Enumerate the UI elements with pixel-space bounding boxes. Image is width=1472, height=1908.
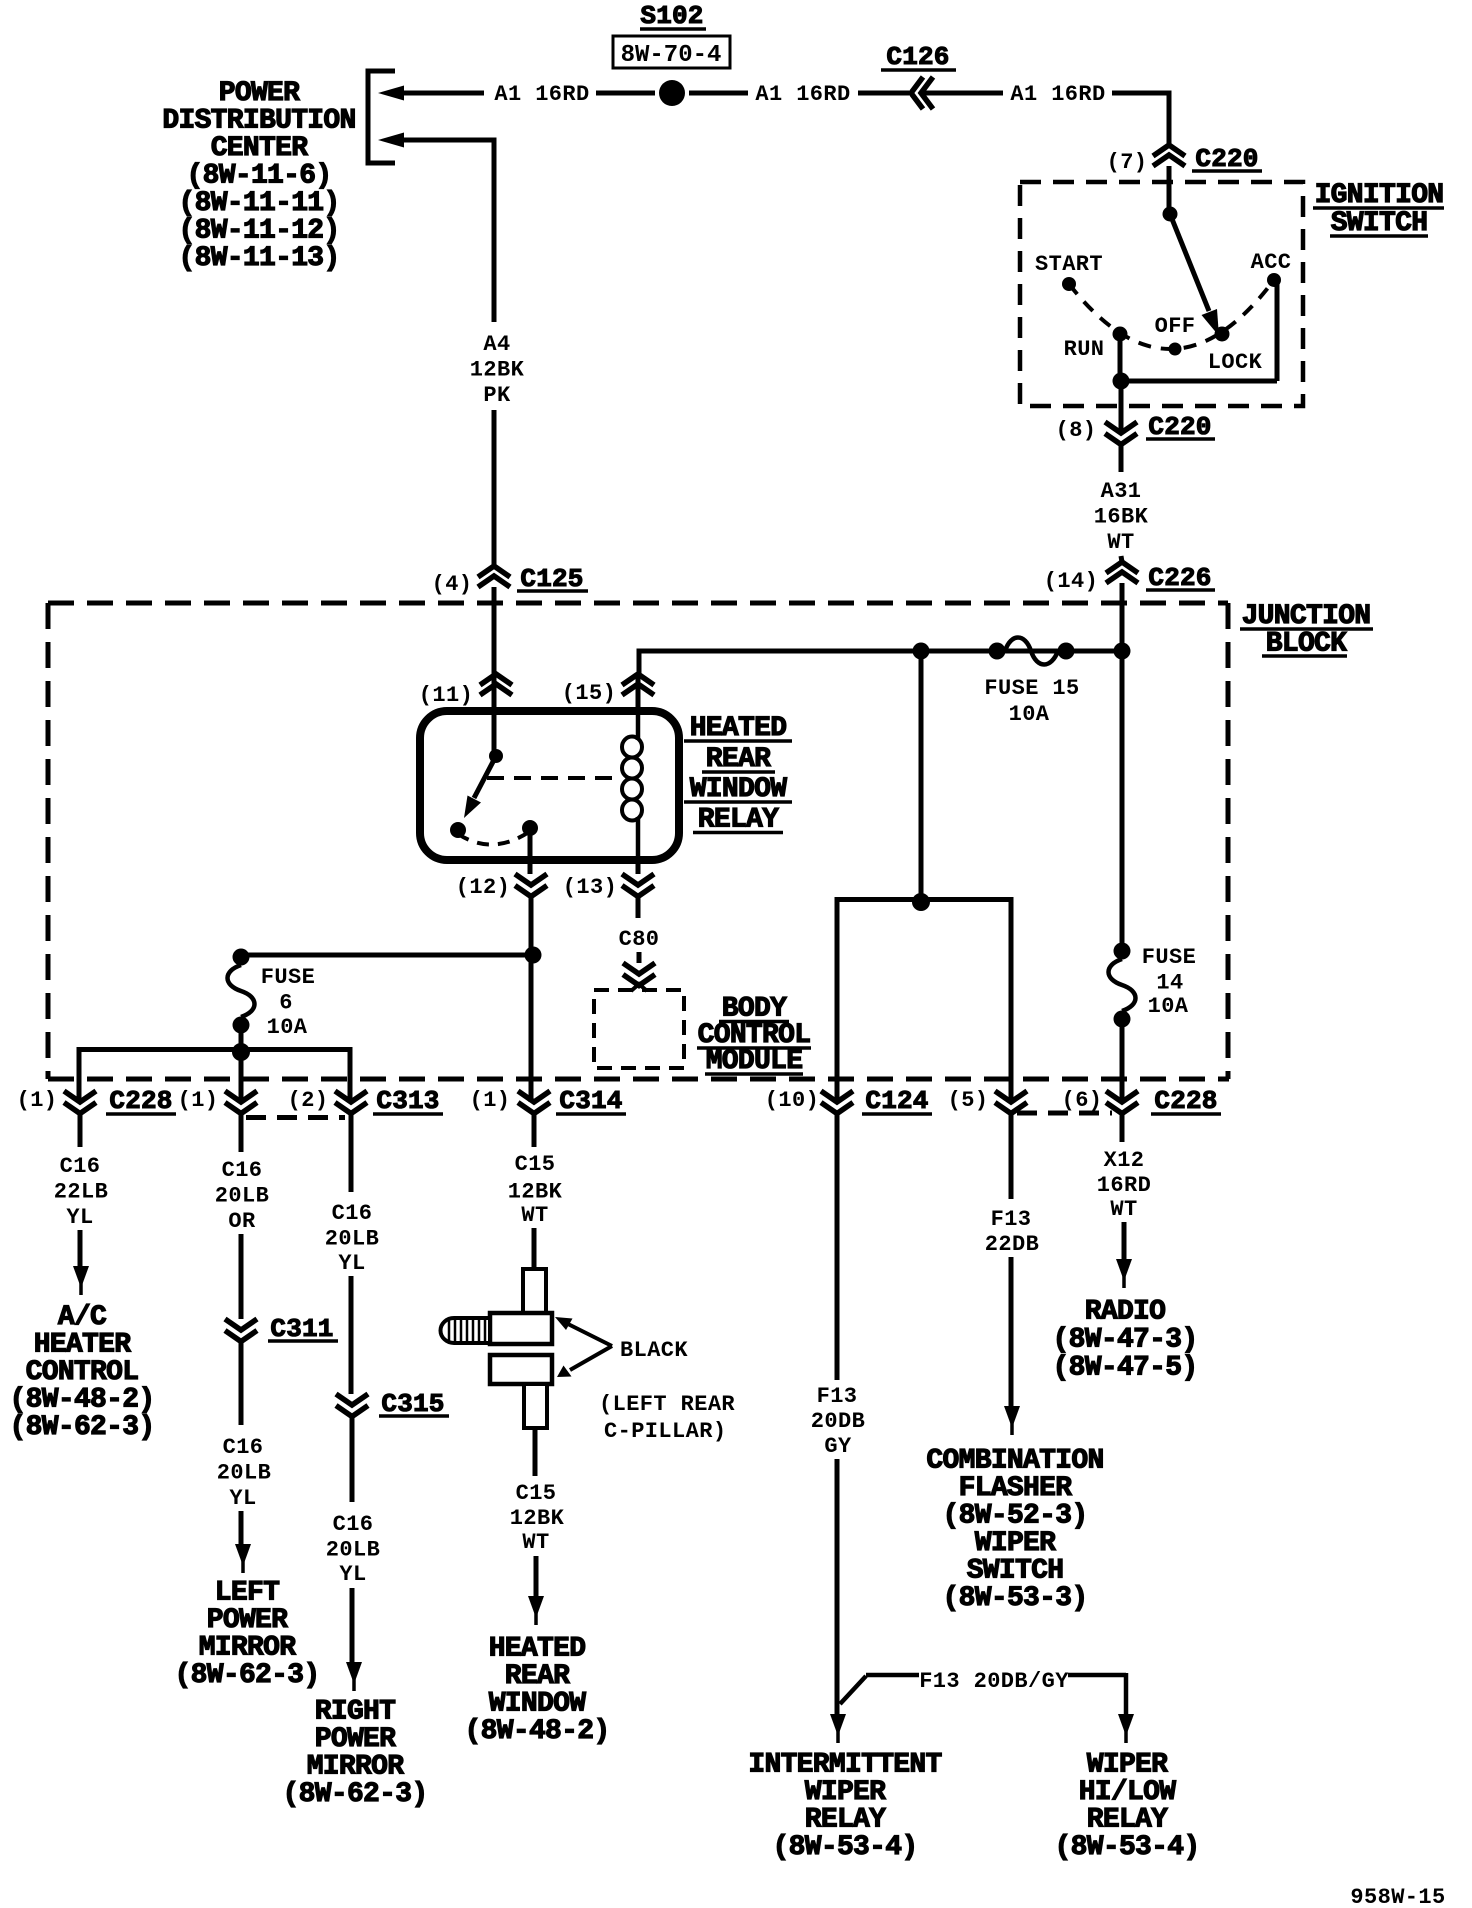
wire C15 12BK WT upper [532,1113,537,1147]
svg-text:(8W-62-3): (8W-62-3) [283,1779,428,1810]
svg-text:CONTROL: CONTROL [26,1357,139,1388]
svg-text:BLACK: BLACK [620,1338,688,1363]
reference box 8W-70-4 [613,36,730,68]
connector C220 pin 8 [1105,422,1137,433]
svg-text:(8W-11-6): (8W-11-6) [187,161,332,192]
wire C226 down through junction block [1120,583,1125,951]
wire C16 20LB OR [239,1113,244,1152]
connector chevrons x241 [225,1091,257,1102]
svg-text:C228: C228 [109,1086,172,1116]
svg-text:C-PILLAR): C-PILLAR) [604,1419,726,1444]
svg-text:MIRROR: MIRROR [307,1752,405,1783]
svg-text:(8W-11-13): (8W-11-13) [178,243,339,274]
svg-text:(1): (1) [470,1088,511,1113]
svg-text:S102: S102 [640,1,703,31]
wire C16 20LB YL to left mirror [239,1342,244,1426]
svg-text:C16: C16 [332,1201,373,1226]
svg-text:(10): (10) [765,1088,819,1113]
svg-text:(12): (12) [456,875,510,900]
svg-text:WIPER: WIPER [805,1777,886,1808]
wire A4 lower [492,410,497,566]
wire A1 16RD: C126 to ignition switch [922,91,1003,96]
connector C226 [1106,562,1138,573]
svg-text:C16: C16 [222,1158,263,1183]
svg-text:(1): (1) [17,1088,58,1113]
svg-text:958W-15: 958W-15 [1350,1885,1445,1908]
svg-text:WIPER: WIPER [1087,1750,1168,1781]
svg-text:(8W-62-3): (8W-62-3) [175,1660,320,1691]
relay common feed [492,711,497,756]
arrow to A/C heater control [73,1266,89,1288]
branch diagonal [840,1676,866,1704]
svg-text:POWER: POWER [219,78,300,109]
svg-text:A/C: A/C [58,1302,107,1333]
svg-text:(7): (7) [1107,150,1148,175]
fuse 6 feed [241,953,533,958]
svg-text:16BK: 16BK [1094,505,1149,530]
svg-text:PK: PK [483,383,511,408]
relay armature [474,756,496,798]
wire A4: PDC to C125 [400,138,497,143]
splice S102 [659,80,685,106]
svg-text:RIGHT: RIGHT [315,1697,396,1728]
svg-text:WT: WT [1107,530,1134,555]
wire F13 20DB GY [835,1113,840,1380]
svg-text:POWER: POWER [315,1724,396,1755]
svg-text:C16: C16 [60,1154,101,1179]
svg-text:DISTRIBUTION: DISTRIBUTION [162,106,355,137]
connector pin 15 chevrons [622,674,654,685]
svg-text:POWER: POWER [207,1605,288,1636]
svg-text:C16: C16 [333,1512,374,1537]
arrow to heated rear window [528,1596,544,1618]
junction block boundary [48,601,1228,606]
wire to C220 pin 8 [1119,381,1124,433]
svg-text:(8): (8) [1056,418,1097,443]
svg-text:20DB: 20DB [811,1409,865,1434]
wiper feed bus [837,897,1011,902]
wire relay pin 13 [636,860,641,874]
svg-text:SWITCH: SWITCH [967,1556,1064,1587]
svg-text:10A: 10A [1009,702,1050,727]
PDC feed arrow 1 [378,86,404,101]
svg-text:6: 6 [279,991,293,1016]
arrow to radio [1116,1259,1132,1281]
svg-text:WT: WT [521,1203,548,1228]
svg-text:(8W-48-2): (8W-48-2) [10,1385,155,1416]
svg-text:YL: YL [229,1486,256,1511]
svg-text:22LB: 22LB [54,1180,108,1205]
svg-text:INTERMITTENT: INTERMITTENT [748,1750,941,1781]
svg-text:HEATER: HEATER [34,1330,132,1361]
ignition switch rotor arm [1170,214,1209,311]
svg-text:(14): (14) [1044,569,1098,594]
wire bus to fuse 15 [637,649,642,676]
svg-text:HI/LOW: HI/LOW [1079,1777,1177,1808]
wire relay pin 12 [528,828,533,874]
ignition switch rotor pivot [1163,207,1178,222]
arrow to left power mirror [235,1544,251,1566]
junction block notch right [1017,1111,1112,1116]
fuse 14 [1114,943,1131,960]
svg-text:(11): (11) [419,683,473,708]
fuse 6 [228,965,255,1017]
svg-text:16RD: 16RD [1097,1173,1151,1198]
connector pin 12 chevrons [515,874,547,885]
svg-text:YL: YL [338,1251,365,1276]
svg-text:A4: A4 [483,332,510,357]
svg-text:FUSE 15: FUSE 15 [984,676,1079,701]
svg-text:(1): (1) [178,1088,219,1113]
svg-text:GY: GY [824,1434,852,1459]
svg-text:LEFT: LEFT [215,1578,279,1609]
connector C315 [336,1394,368,1405]
svg-text:MIRROR: MIRROR [199,1633,297,1664]
svg-text:FUSE: FUSE [1142,945,1196,970]
svg-text:F13 20DB/GY: F13 20DB/GY [919,1669,1069,1694]
wire ACC leg [1121,379,1277,384]
junction in switch [1113,373,1130,390]
arrow to wiper hi/low relay [1118,1714,1134,1736]
svg-text:(8W-11-11): (8W-11-11) [178,188,339,219]
svg-text:(LEFT REAR: (LEFT REAR [599,1392,735,1417]
svg-text:YL: YL [339,1562,366,1587]
connector pin 11 chevrons [480,674,512,685]
svg-text:C15: C15 [515,1152,556,1177]
svg-text:A1 16RD: A1 16RD [494,82,589,107]
svg-text:(8W-53-3): (8W-53-3) [943,1583,1088,1614]
svg-text:ACC: ACC [1251,250,1292,275]
svg-text:RADIO: RADIO [1085,1297,1166,1328]
svg-text:(13): (13) [563,875,617,900]
svg-text:YL: YL [66,1205,93,1230]
svg-text:WIPER: WIPER [975,1528,1056,1559]
svg-text:(5): (5) [948,1088,989,1113]
wire C16 20LB YL upper (C313 leg) [349,1113,354,1192]
svg-text:(8W-47-3): (8W-47-3) [1053,1325,1198,1356]
svg-text:20LB: 20LB [326,1538,380,1563]
grommet upper stem [523,1269,546,1313]
svg-text:RUN: RUN [1064,337,1105,362]
svg-text:8W-70-4: 8W-70-4 [621,42,722,69]
svg-text:12BK: 12BK [470,358,525,383]
mirror/heater bus [232,1043,250,1061]
grommet lower stem [524,1384,547,1428]
connector C311 [225,1319,257,1330]
svg-text:REAR: REAR [505,1661,570,1692]
svg-text:14: 14 [1156,971,1183,996]
svg-text:CENTER: CENTER [211,133,309,164]
svg-text:C15: C15 [516,1481,557,1506]
svg-text:WINDOW: WINDOW [489,1689,587,1720]
wire RUN to junction [1118,334,1123,381]
svg-text:X12: X12 [1104,1148,1145,1173]
wire F13 22DB [1009,1113,1014,1199]
branch label F13 20DB/GY [866,1673,919,1678]
svg-text:RELAY: RELAY [805,1805,886,1836]
connector pin 13 chevrons [622,874,654,885]
arrow to intermittent wiper relay [830,1714,846,1736]
svg-text:A1 16RD: A1 16RD [755,82,850,107]
svg-text:C80: C80 [619,927,660,952]
svg-text:22DB: 22DB [985,1232,1039,1257]
relay actuating dashed link [487,776,621,780]
svg-text:HEATED: HEATED [489,1634,586,1665]
fuse 15 [913,643,930,660]
svg-text:12BK: 12BK [510,1506,565,1531]
junction block notch left [246,1115,345,1120]
svg-text:(8W-53-4): (8W-53-4) [773,1832,918,1863]
connector C228 left [64,1091,96,1102]
wire A1 16RD: S102 to C126 [689,91,748,96]
svg-text:20LB: 20LB [215,1184,269,1209]
svg-text:(8W-53-4): (8W-53-4) [1055,1832,1200,1863]
wire C15 12BK WT lower [533,1428,538,1476]
svg-text:WT: WT [522,1530,549,1555]
svg-text:(6): (6) [1062,1088,1103,1113]
svg-text:(15): (15) [562,681,616,706]
svg-text:C314: C314 [559,1086,622,1116]
wire X12 16RD WT [1120,1113,1125,1142]
ignition switch feed wire [1167,93,1172,145]
svg-text:10A: 10A [267,1015,308,1040]
svg-text:C228: C228 [1154,1086,1217,1116]
svg-text:WT: WT [1110,1197,1137,1222]
PDC feed arrow 2 [378,133,404,148]
wire A1 16RD: PDC to S102 [400,91,484,96]
svg-text:(8W-62-3): (8W-62-3) [10,1412,155,1443]
grommet lower body [490,1355,552,1384]
svg-text:LOCK: LOCK [1208,350,1263,375]
connector C313 [335,1091,367,1102]
connector C228 right [1106,1091,1138,1102]
svg-text:OR: OR [228,1209,256,1234]
connector C124 [821,1091,853,1102]
wire C125 to relay [492,587,497,713]
svg-text:A31: A31 [1101,479,1142,504]
power distribution center bracket [368,71,395,163]
svg-text:C16: C16 [223,1435,264,1460]
BLACK callout arrows [568,1324,612,1346]
relay coil [636,711,641,740]
svg-text:FUSE: FUSE [261,965,315,990]
svg-text:(8W-48-2): (8W-48-2) [465,1716,610,1747]
svg-text:(8W-47-5): (8W-47-5) [1053,1353,1198,1384]
arrow to right power mirror [346,1662,362,1684]
arrow to combination flasher [1004,1406,1020,1428]
connector C125 [478,566,510,577]
connector C80 [623,963,655,974]
svg-text:10A: 10A [1148,994,1189,1019]
svg-text:(8W-11-12): (8W-11-12) [178,216,339,247]
relay contact arc [458,832,529,845]
svg-text:20LB: 20LB [325,1227,379,1252]
svg-text:(8W-52-3): (8W-52-3) [943,1501,1088,1532]
svg-text:COMBINATION: COMBINATION [926,1446,1103,1477]
svg-text:A1 16RD: A1 16RD [1010,82,1105,107]
svg-text:F13: F13 [991,1207,1032,1232]
wire fuse15 branch down [919,651,924,902]
connector C220 pin 7 [1153,145,1185,156]
position arc [1069,280,1274,349]
svg-text:(2): (2) [288,1088,329,1113]
svg-text:C313: C313 [376,1086,439,1116]
heated rear window relay box [420,711,679,860]
wire A31 16BK WT [1119,445,1124,473]
svg-text:F13: F13 [817,1384,858,1409]
svg-text:C126: C126 [886,42,949,72]
svg-text:(4): (4) [432,572,473,597]
connector C126 [911,77,923,109]
connector C314 [518,1091,550,1102]
svg-text:20LB: 20LB [217,1461,271,1486]
connector chevrons x1011 [995,1091,1027,1102]
ignition switch box [1020,182,1303,406]
svg-text:C124: C124 [865,1086,928,1116]
wire C16 20LB YL to right mirror [350,1417,355,1503]
wire C16 22LB YL [78,1113,83,1147]
svg-text:12BK: 12BK [508,1180,563,1205]
body control module box [594,990,684,1068]
grommet screw [441,1318,490,1343]
svg-text:FLASHER: FLASHER [959,1473,1073,1504]
svg-text:START: START [1035,252,1103,277]
svg-text:RELAY: RELAY [1087,1805,1168,1836]
grommet upper body [490,1313,552,1344]
svg-text:OFF: OFF [1155,314,1196,339]
